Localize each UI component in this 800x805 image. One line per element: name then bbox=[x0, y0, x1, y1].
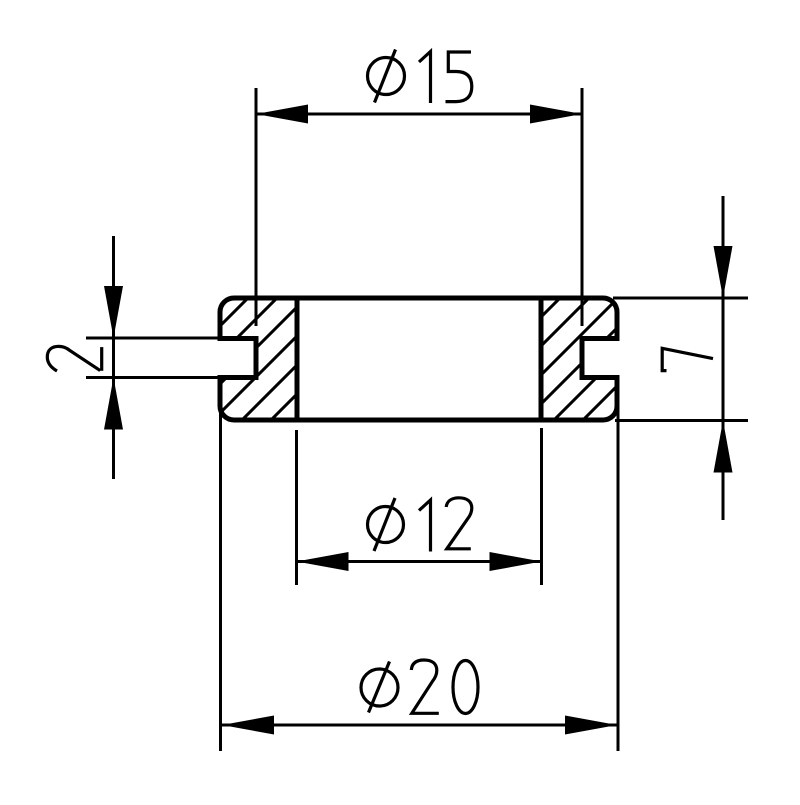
arrowhead left of dimension Ø20 bbox=[222, 716, 274, 735]
grommet body outline (section profile with side grooves) bbox=[220, 298, 617, 420]
bore wall right (inner hole edge) bbox=[539, 298, 544, 420]
extension line right of dimension Ø20 bbox=[617, 399, 620, 751]
dimension line 7 (vertical, right side) bbox=[722, 196, 725, 520]
extension line top of dimension 2 (groove width) bbox=[86, 337, 222, 340]
arrowhead left of dimension Ø15 bbox=[256, 105, 308, 124]
arrowhead top of dimension 7 bbox=[714, 246, 733, 298]
bore wall left (inner hole edge) bbox=[295, 298, 300, 420]
extension line top of dimension 7 (height) bbox=[613, 297, 748, 300]
extension line left of dimension Ø15 bbox=[255, 88, 258, 326]
dimension text Ø15 bbox=[368, 50, 472, 104]
dimension text 7 (rotated) bbox=[662, 348, 713, 370]
arrowhead bottom of dimension 2 bbox=[104, 378, 123, 430]
dimension line Ø15 bbox=[256, 113, 582, 116]
arrowhead top of dimension 2 bbox=[104, 286, 123, 338]
arrowhead right of dimension Ø12 bbox=[490, 552, 542, 571]
section hatching, right flange bbox=[428, 290, 742, 430]
dimension text Ø20 bbox=[361, 660, 478, 714]
extension line bottom of dimension 2 (groove width) bbox=[86, 376, 222, 379]
extension line left of dimension Ø20 bbox=[219, 402, 222, 751]
arrowhead bottom of dimension 7 bbox=[714, 421, 733, 473]
arrowhead right of dimension Ø15 bbox=[530, 105, 582, 124]
arrowhead right of dimension Ø20 bbox=[565, 716, 617, 735]
extension line right of dimension Ø15 bbox=[581, 88, 584, 326]
dimension text Ø12 bbox=[368, 498, 472, 552]
extension line right of dimension Ø12 bbox=[540, 428, 543, 585]
dimension line Ø12 bbox=[297, 560, 542, 563]
extension line bottom of dimension 7 (height) bbox=[615, 419, 748, 422]
extension line left of dimension Ø12 bbox=[295, 430, 298, 585]
arrowhead left of dimension Ø12 bbox=[297, 552, 349, 571]
dimension text 2 (rotated) bbox=[47, 346, 101, 371]
dimension line 2 (vertical, left side) bbox=[112, 236, 115, 479]
dimension line Ø20 bbox=[222, 724, 617, 727]
section hatching, left flange bbox=[116, 290, 430, 430]
